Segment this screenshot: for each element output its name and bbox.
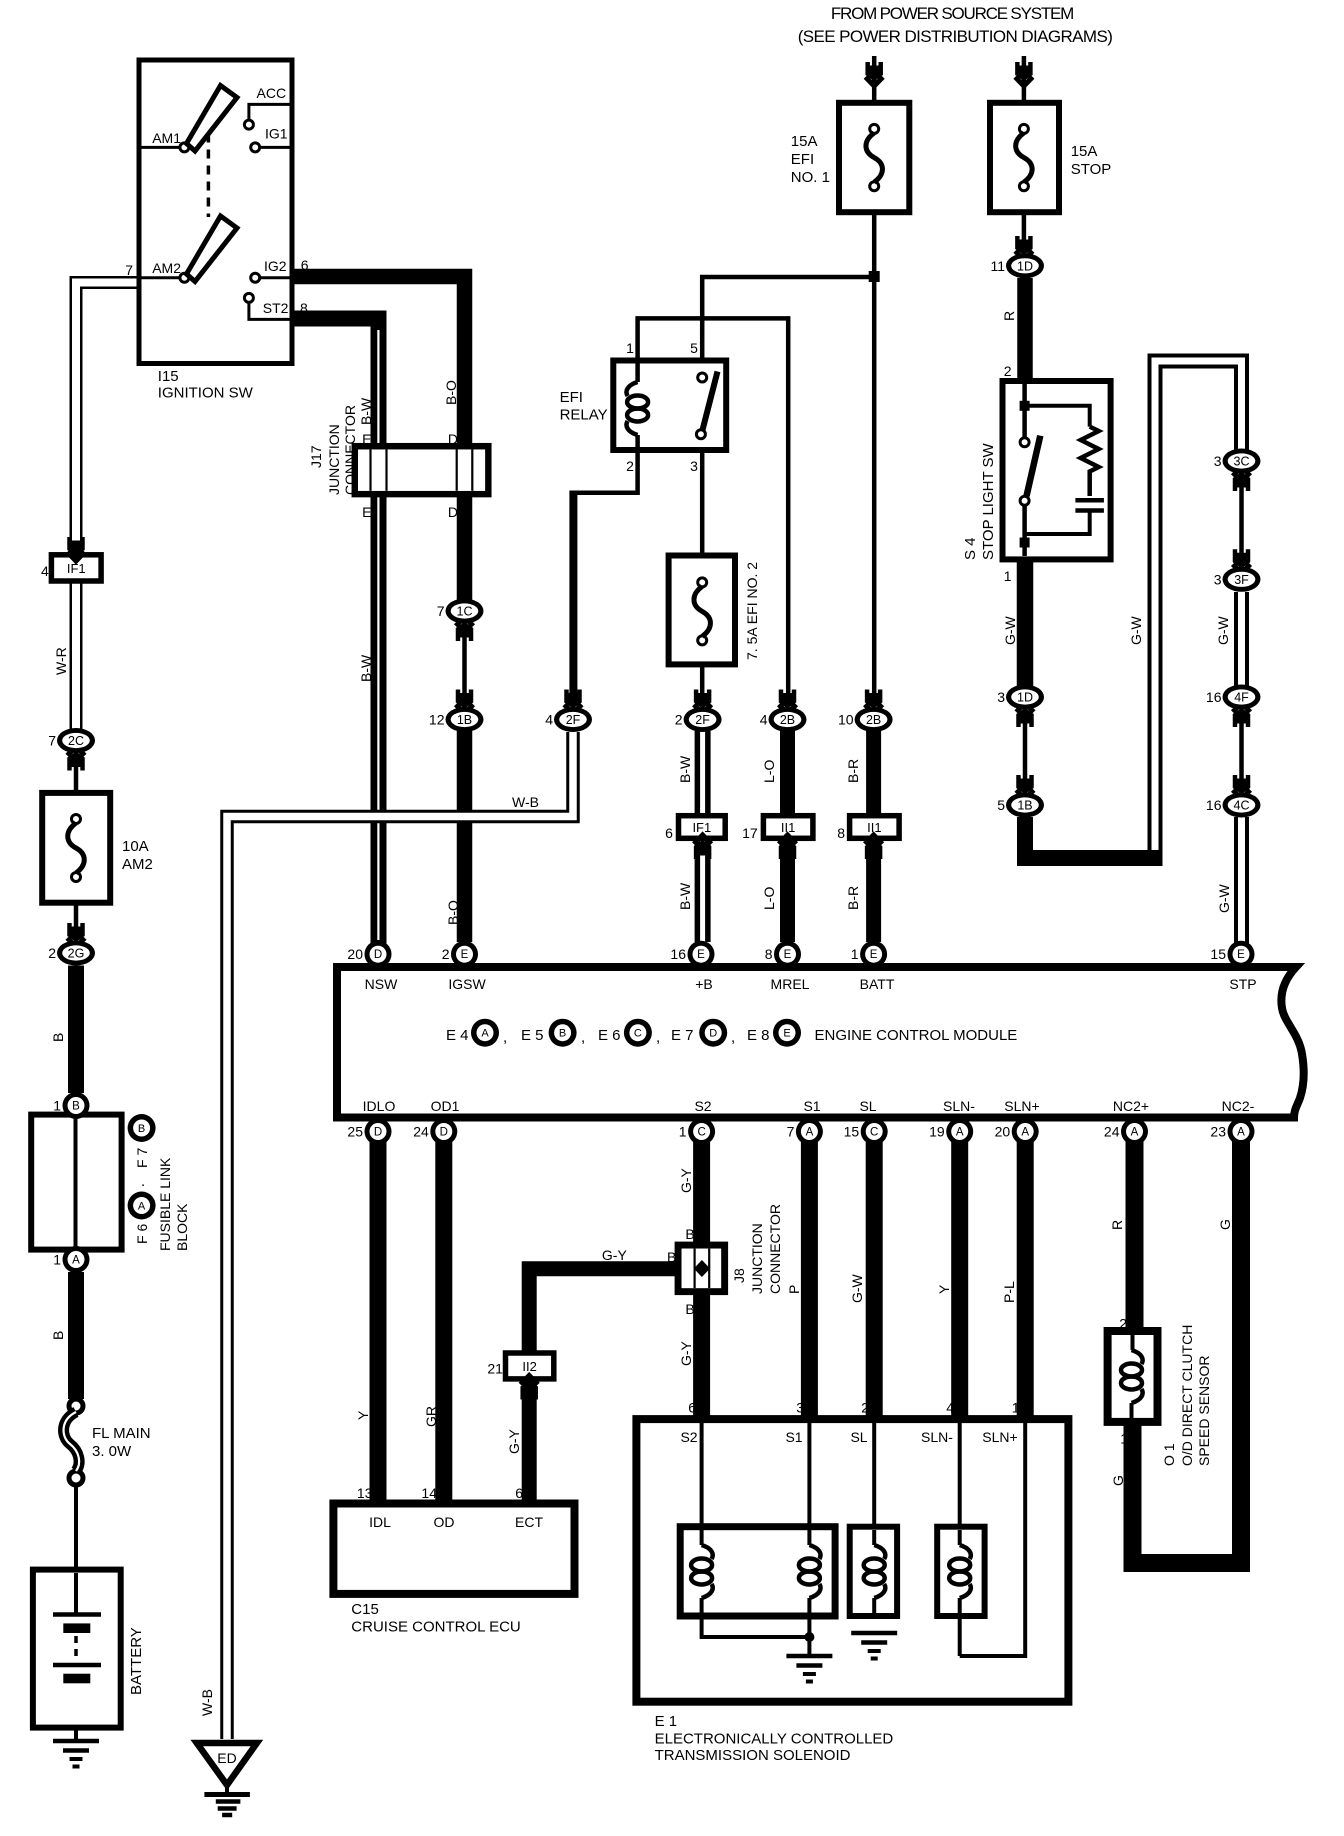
ECM pin 16E +B [688, 941, 715, 968]
svg-text:E 6: E 6 [598, 1027, 621, 1044]
connector box II1 [850, 816, 900, 839]
battery box [33, 1570, 121, 1728]
svg-text:7: 7 [787, 1124, 795, 1140]
svg-text:3F: 3F [1234, 573, 1249, 587]
wire: G-W stop light switch pin1 to 1D(3) [1017, 557, 1034, 686]
svg-text:,: , [731, 1029, 735, 1046]
svg-text:II2: II2 [522, 1359, 536, 1374]
svg-text:3: 3 [997, 689, 1005, 705]
connector 4F [1223, 685, 1261, 710]
svg-text:B-O: B-O [443, 380, 459, 405]
EFI relay box [613, 361, 726, 451]
svg-text:G-W: G-W [1128, 615, 1144, 645]
svg-text:C: C [870, 1127, 878, 1139]
svg-text:1: 1 [1012, 1400, 1020, 1416]
svg-text:4: 4 [545, 712, 553, 728]
wire: thin link 1D(3) to 1B(5) [1023, 690, 1028, 810]
E1 electronically controlled transmission solenoid box [636, 1419, 1068, 1702]
svg-text:A: A [1021, 1127, 1029, 1139]
arrow into IF1 +B [694, 835, 712, 844]
wire: G NC2- from ECM around to O1 pin1 [1133, 1140, 1242, 1563]
wire: Y SLN- from ECM to E1 [951, 1140, 968, 1420]
svg-text:J8: J8 [731, 1268, 747, 1283]
wire: 2C to 10A AM2 fuse [74, 753, 79, 819]
O1 coil [1131, 1335, 1135, 1350]
svg-text:SL: SL [850, 1429, 867, 1445]
svg-text:AM1: AM1 [152, 130, 181, 146]
connector box II1 [763, 816, 813, 839]
wire: W-R hollow IF1 fuse to 2C [70, 581, 83, 729]
svg-text:EFI: EFI [560, 389, 583, 406]
svg-text:B: B [685, 1301, 694, 1317]
wire: thin link 3C-3F [1239, 473, 1244, 568]
svg-text:IDLO: IDLO [363, 1098, 396, 1114]
svg-text:(SEE POWER DISTRIBUTION DIAGRA: (SEE POWER DISTRIBUTION DIAGRAMS) [798, 27, 1113, 46]
ground under SL coil [851, 1631, 897, 1636]
FL MAIN 3.0W fusible link [69, 1399, 83, 1413]
connector 1B(5) [1006, 793, 1044, 818]
svg-text:IGNITION SW: IGNITION SW [158, 385, 254, 402]
svg-text:ED: ED [217, 1750, 236, 1766]
ECM pin 20A SLN+ [1012, 1118, 1039, 1145]
svg-text:E: E [784, 949, 792, 961]
svg-text:CONNECTOR: CONNECTOR [767, 1204, 783, 1294]
svg-text:3: 3 [690, 458, 698, 474]
connector 4C [1223, 793, 1261, 818]
O1 O/D direct clutch speed sensor box [1108, 1331, 1158, 1422]
svg-text:A: A [956, 1127, 964, 1139]
ECM pin 19A SLN- [946, 1118, 973, 1145]
wire: 10A AM2 fuse to 2G [74, 877, 79, 930]
S4 internal top junction [1022, 384, 1027, 437]
wire: G-Y S2 from ECM to solenoid E1 [693, 1140, 710, 1420]
ECM pin 23A NC2- [1228, 1118, 1255, 1145]
svg-text:B-W: B-W [358, 654, 374, 682]
svg-text:C: C [697, 1127, 705, 1139]
svg-text:A: A [138, 1200, 146, 1212]
svg-text:I15: I15 [158, 368, 179, 385]
svg-text:15A: 15A [1071, 143, 1098, 160]
svg-text:W-B: W-B [512, 794, 539, 810]
svg-text:21: 21 [487, 1361, 503, 1377]
svg-text:15A: 15A [791, 133, 818, 150]
svg-text:20: 20 [347, 946, 363, 962]
svg-text:CONNECTOR: CONNECTOR [342, 405, 358, 495]
svg-text:E 8: E 8 [747, 1027, 770, 1044]
svg-text:F 7: F 7 [134, 1148, 150, 1168]
svg-text:SLN-: SLN- [921, 1429, 953, 1445]
wire: B from fusible link pin 1A to FL MAIN [68, 1272, 84, 1399]
svg-text:2: 2 [861, 1400, 869, 1416]
svg-text:B: B [667, 1249, 676, 1265]
connector box IF1 [679, 816, 726, 839]
connector box IF1 [51, 555, 101, 581]
svg-text:B: B [559, 1028, 566, 1040]
J8 junction connector box [678, 1245, 725, 1292]
svg-text:15: 15 [844, 1124, 860, 1140]
svg-text:E: E [362, 504, 371, 520]
svg-text:NC2-: NC2- [1222, 1098, 1255, 1114]
solenoid box SLN [937, 1527, 984, 1616]
svg-text:B-W: B-W [677, 755, 693, 783]
arrow into 4C [1233, 790, 1251, 799]
svg-text:7: 7 [125, 262, 133, 278]
svg-text:P: P [786, 1285, 802, 1294]
svg-text:A: A [1131, 1127, 1139, 1139]
svg-text:1B: 1B [1017, 799, 1032, 813]
connector 1D(3) [1006, 685, 1044, 710]
arrow into 2B(4) [779, 705, 797, 714]
svg-text:E 1: E 1 [655, 1713, 678, 1730]
svg-text:G: G [1217, 1219, 1233, 1230]
E1 internal wires [700, 1423, 704, 1527]
svg-text:SPEED SENSOR: SPEED SENSOR [1196, 1356, 1212, 1466]
ED ground triangle [197, 1743, 257, 1785]
svg-text:G-Y: G-Y [678, 1167, 694, 1193]
svg-text:2: 2 [1119, 1316, 1127, 1332]
arrow below 4F [1233, 703, 1251, 712]
svg-text:2F: 2F [695, 713, 710, 727]
connector 2F(2) [684, 707, 722, 732]
wire: relay pin3 into 7.5A EFI NO.2 fuse [700, 448, 705, 582]
svg-text:P-L: P-L [1001, 1281, 1017, 1303]
ECM pin 20D NSW [365, 941, 392, 968]
connector 1C [446, 599, 484, 624]
wire: relay pin2 drop to 2F(4) [569, 491, 577, 697]
svg-text:4C: 4C [1234, 799, 1250, 813]
wire: thin link 4F-4C [1239, 717, 1244, 794]
S4 stop light switch box [1003, 381, 1111, 559]
svg-text:B: B [50, 1331, 66, 1340]
svg-text:C15: C15 [351, 1601, 379, 1618]
svg-text:ACC: ACC [257, 85, 287, 101]
svg-text:3: 3 [796, 1400, 804, 1416]
svg-text:FUSIBLE LINK: FUSIBLE LINK [157, 1157, 173, 1251]
wire: R from 1D(11) to stop light switch [1017, 278, 1033, 383]
svg-text:Y: Y [355, 1410, 371, 1420]
wire: W-R hollow from ignition AM2 pin7 to IF1 fuse [76, 283, 139, 546]
svg-text:D: D [440, 1127, 448, 1139]
svg-text:1: 1 [53, 1098, 61, 1114]
svg-text:NC2+: NC2+ [1113, 1098, 1149, 1114]
svg-text:O/D DIRECT CLUTCH: O/D DIRECT CLUTCH [1179, 1325, 1195, 1466]
fuse 10A AM2 box [42, 793, 110, 903]
svg-text:2: 2 [626, 458, 634, 474]
fusible link pin 1B [63, 1092, 90, 1119]
wire: 15A STOP fuse output to 1D(11) [1022, 186, 1027, 254]
svg-text:4F: 4F [1234, 691, 1249, 705]
svg-text:E 4: E 4 [446, 1027, 469, 1044]
wire: 7.5A fuse output to 2F(2) [700, 640, 705, 696]
svg-text:E: E [461, 949, 469, 961]
svg-text:4: 4 [946, 1400, 954, 1416]
fuse 15A EFI NO.1 box [839, 103, 909, 212]
connector 1B(12) [446, 707, 484, 732]
ignition ACC contact and wire [244, 120, 253, 129]
svg-text:24: 24 [413, 1124, 429, 1140]
wire: P-L SLN+ from ECM to E1 [1017, 1140, 1034, 1420]
svg-text:G-W: G-W [1216, 883, 1232, 913]
svg-text:SL: SL [859, 1098, 876, 1114]
svg-text:E 7: E 7 [671, 1027, 694, 1044]
ECM pin 2E IGSW [451, 941, 478, 968]
arrow into 2F(4) [564, 705, 582, 714]
ECM pin 24A NC2+ [1121, 1118, 1148, 1145]
svg-text:C: C [634, 1028, 642, 1040]
svg-text:3. 0W: 3. 0W [92, 1443, 132, 1460]
svg-text:4: 4 [760, 712, 768, 728]
svg-text:E: E [870, 949, 878, 961]
svg-text:S2: S2 [680, 1429, 697, 1445]
svg-text:BATTERY: BATTERY [128, 1627, 145, 1695]
svg-text:2B: 2B [866, 713, 881, 727]
svg-text:2: 2 [48, 945, 56, 961]
svg-text:G-W: G-W [1215, 615, 1231, 645]
svg-text:JUNCTION: JUNCTION [326, 424, 342, 495]
wire: thin link relay pin5 to EFI NO.1 fuse wire [702, 277, 874, 362]
svg-text:8: 8 [300, 300, 308, 316]
svg-text:IG2: IG2 [264, 258, 287, 274]
svg-text:20: 20 [995, 1124, 1011, 1140]
svg-text:ENGINE CONTROL MODULE: ENGINE CONTROL MODULE [815, 1027, 1018, 1044]
E1 SLN- to SLN+ link [958, 1616, 962, 1656]
wire: G-W hollow 3F to 4F [1234, 592, 1249, 686]
svg-text:,: , [656, 1029, 660, 1046]
wire: FL MAIN to battery [74, 1487, 78, 1612]
svg-text:1: 1 [626, 340, 634, 356]
wire: L-O MREL 2B(4) to ECM MREL [780, 731, 795, 942]
svg-text:S1: S1 [785, 1429, 802, 1445]
svg-text:B-O: B-O [445, 900, 461, 925]
svg-text:SLN+: SLN+ [982, 1429, 1017, 1445]
connector 2B(4) [769, 707, 807, 732]
svg-text:GR: GR [423, 1406, 439, 1427]
svg-text:IG1: IG1 [265, 126, 288, 142]
arrow into II2 [520, 1376, 538, 1385]
svg-text:14: 14 [421, 1485, 437, 1501]
svg-text:B: B [685, 1226, 694, 1242]
svg-text:1: 1 [679, 1124, 687, 1140]
connector 3F [1223, 567, 1261, 592]
wire: Y from ECM IDLO to cruise ECU IDL [370, 1140, 387, 1505]
solenoid box SL [850, 1527, 897, 1616]
ignition switch dashed link [207, 134, 211, 218]
svg-text:12: 12 [429, 712, 445, 728]
svg-text:4: 4 [41, 563, 49, 579]
wire: G-W hollow 4C to ECM STP [1234, 817, 1249, 947]
ECM pin 15C SL [861, 1118, 888, 1145]
arrow into 1B(5) [1016, 790, 1034, 799]
svg-text:G-Y: G-Y [678, 1340, 694, 1366]
ECM pin 15E STP [1228, 941, 1255, 968]
svg-text:D: D [448, 504, 458, 520]
ECM pin 25D IDLO [365, 1118, 392, 1145]
svg-text:G: G [1110, 1475, 1126, 1486]
arrow into 2G [67, 938, 85, 947]
wire: G-W SL from ECM to E1 [866, 1140, 883, 1420]
wire: B-O from ignition IG2 pin 6 to junction 1C [292, 277, 465, 601]
svg-text:2C: 2C [68, 734, 84, 748]
ignition IG1 contact and wire [251, 143, 260, 152]
svg-text:BATT: BATT [860, 976, 895, 992]
svg-text:O 1: O 1 [1161, 1443, 1177, 1466]
svg-text:A: A [806, 1127, 814, 1139]
wire: B-W from ignition ST2 pin 8 to ECM NSW [292, 319, 379, 949]
ignition ST2 contact and wire [244, 293, 253, 302]
svg-text:10: 10 [838, 712, 854, 728]
svg-text:24: 24 [1104, 1124, 1120, 1140]
arrow below 1D(3) [1016, 703, 1034, 712]
ECM pin 24D OD1 [430, 1118, 457, 1145]
ground under S1 coil [786, 1654, 832, 1659]
J8 junction node diamond [694, 1260, 710, 1277]
connector 3C [1223, 449, 1261, 474]
svg-text:B: B [50, 1033, 66, 1042]
svg-text:AM2: AM2 [122, 856, 153, 873]
S4 resistor zigzag [1081, 427, 1099, 496]
svg-text:16: 16 [1206, 689, 1222, 705]
svg-text:5: 5 [690, 340, 698, 356]
wire: feed into 15A STOP fuse [1022, 56, 1027, 128]
svg-text:AM2: AM2 [152, 260, 181, 276]
svg-text:OD: OD [434, 1514, 455, 1530]
svg-text:NSW: NSW [365, 976, 398, 992]
svg-text:E: E [362, 431, 371, 447]
wire: relay pin1 to MREL chain 2B(4) [638, 318, 789, 696]
J17 junction connector box [355, 446, 489, 494]
J17 internal wire outlines [369, 450, 371, 491]
svg-text:6: 6 [688, 1400, 696, 1416]
svg-text:10A: 10A [122, 838, 149, 855]
svg-text:E: E [697, 949, 705, 961]
arrow into II1 MREL [779, 835, 797, 844]
svg-text:SLN+: SLN+ [1004, 1098, 1039, 1114]
svg-text:3: 3 [1214, 571, 1222, 587]
svg-text:B-W: B-W [358, 397, 374, 425]
coil SL [872, 1530, 876, 1545]
S4 capacitor [1075, 498, 1104, 503]
wire: W-B hollow from 2F(4) to ED ground [227, 732, 573, 1739]
svg-text:E: E [783, 1028, 790, 1040]
wire: B-W hollow +B chain 2F(2) to ECM +B [695, 731, 711, 942]
ECM pin 7A S1 [796, 1118, 823, 1145]
feed arrow EFI NO.1 [865, 77, 883, 86]
E1 S2 to S1 ground link [702, 1616, 810, 1637]
wire: feed into 15A EFI NO.1 fuse [872, 56, 877, 124]
svg-text:7: 7 [48, 733, 56, 749]
svg-text:1: 1 [53, 1252, 61, 1268]
ECM pin 1E BATT [860, 941, 887, 968]
connector 2F(4) [554, 707, 592, 732]
svg-text:A: A [72, 1255, 80, 1267]
wire: thin link 1C to 1B [462, 615, 467, 715]
ECM: engine control module box with torn right edge [337, 967, 1304, 1118]
svg-text:2F: 2F [566, 713, 581, 727]
svg-text:2: 2 [442, 946, 450, 962]
svg-text:B: B [138, 1123, 145, 1135]
wire: G-Y from II2 to cruise ECU ECT [522, 1378, 537, 1505]
svg-text:SLN-: SLN- [943, 1098, 975, 1114]
svg-text:16: 16 [1206, 797, 1222, 813]
svg-text:.: . [141, 1173, 145, 1190]
fuse 7.5A EFI NO.2 box [669, 556, 735, 665]
fuse 15A STOP box [990, 103, 1059, 212]
svg-text:W-R: W-R [53, 647, 69, 675]
svg-text:EFI: EFI [791, 151, 814, 168]
svg-text:E: E [1237, 949, 1245, 961]
I15 ignition switch box [139, 60, 292, 364]
svg-text:,: , [581, 1029, 585, 1046]
svg-text:FROM POWER SOURCE SYSTEM: FROM POWER SOURCE SYSTEM [831, 4, 1073, 23]
fusible link pin 1A [63, 1246, 90, 1273]
ECM pin 8E MREL [774, 941, 801, 968]
svg-text:S2: S2 [694, 1098, 711, 1114]
svg-text:6: 6 [301, 257, 309, 273]
EFI relay switch [698, 373, 707, 382]
svg-text:1D: 1D [1017, 259, 1033, 273]
svg-text:8: 8 [837, 825, 845, 841]
arrow into 3F [1233, 564, 1251, 573]
svg-text:19: 19 [929, 1124, 945, 1140]
ignition AM2 contact [180, 273, 189, 282]
svg-text:ECT: ECT [515, 1514, 543, 1530]
coil S1 [807, 1530, 811, 1545]
svg-text:7: 7 [437, 603, 445, 619]
svg-text:+B: +B [695, 976, 713, 992]
svg-text:5: 5 [997, 797, 1005, 813]
svg-text:1: 1 [1004, 568, 1012, 584]
svg-text:D: D [448, 431, 458, 447]
svg-text:2G: 2G [68, 947, 85, 961]
S4 resistor branch [1025, 406, 1090, 427]
svg-text:L-O: L-O [761, 760, 777, 783]
svg-text:BLOCK: BLOCK [174, 1203, 190, 1251]
svg-text:TRANSMISSION SOLENOID: TRANSMISSION SOLENOID [655, 1747, 851, 1764]
C15 cruise control ECU box [333, 1504, 574, 1594]
svg-text:D: D [709, 1028, 717, 1040]
svg-text:CRUISE CONTROL ECU: CRUISE CONTROL ECU [351, 1619, 520, 1636]
svg-text:1B: 1B [457, 713, 472, 727]
connector 2G [57, 941, 95, 966]
ignition AM1 contact [180, 143, 189, 152]
EFI relay coil [635, 363, 640, 382]
wire: G-W hollow loop up-over-down to 3C [1155, 361, 1242, 866]
svg-text:B-W: B-W [677, 882, 693, 910]
svg-text:8: 8 [765, 946, 773, 962]
svg-text:17: 17 [742, 825, 758, 841]
svg-text:B-R: B-R [845, 759, 861, 783]
svg-text:Y: Y [936, 1284, 952, 1294]
connector box II2 [506, 1353, 554, 1379]
svg-text:G-Y: G-Y [602, 1247, 628, 1263]
S4 switch contacts and blade [1020, 438, 1029, 447]
svg-text:NO. 1: NO. 1 [791, 169, 830, 186]
svg-text:3C: 3C [1234, 455, 1250, 469]
coil S2 [700, 1530, 704, 1545]
svg-text:15: 15 [1210, 946, 1226, 962]
arrow into 1D(11) [1015, 251, 1033, 260]
svg-text:OD1: OD1 [431, 1098, 460, 1114]
wire: B-O junction 1B to ECM IGSW [457, 731, 473, 942]
svg-text:6: 6 [515, 1485, 523, 1501]
svg-text:1: 1 [851, 946, 859, 962]
arrow into IF1 fuse [67, 552, 85, 561]
svg-text:6: 6 [665, 825, 673, 841]
svg-text:JUNCTION: JUNCTION [749, 1223, 765, 1294]
connector 2B(10) [855, 707, 893, 732]
svg-text:W-B: W-B [199, 1689, 215, 1716]
wire: P S1 from ECM to E1 [801, 1140, 818, 1420]
